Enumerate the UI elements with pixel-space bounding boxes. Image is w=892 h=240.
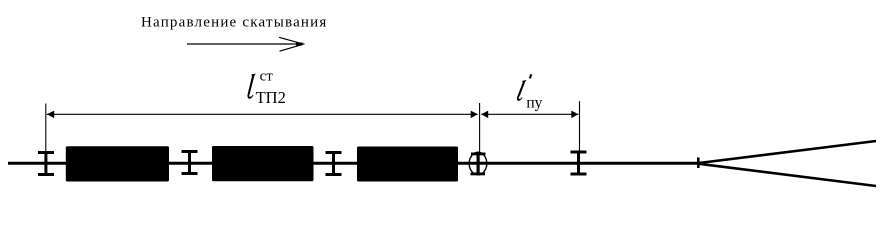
- insulated joint 2 top cap: [182, 150, 198, 153]
- direction arrow shaft: [187, 43, 305, 45]
- svg-text:пу: пу: [526, 95, 542, 112]
- svg-text:ст: ст: [260, 69, 274, 85]
- insulated joint 4 bar: [577, 151, 580, 176]
- insulated joint 3 bottom cap: [326, 173, 342, 176]
- switch upper branch: [699, 141, 876, 163]
- insulated joint 2 bottom cap: [182, 172, 198, 175]
- direction arrow open head lower stroke: [280, 44, 303, 51]
- dimension ltp2 line: [47, 113, 478, 115]
- label l TP2 st : big italic l: [247, 74, 255, 99]
- insulated joint 3 top cap: [326, 151, 342, 154]
- svg-text:ТП2: ТП2: [256, 88, 286, 107]
- insulated joint 1 bottom cap: [38, 173, 54, 176]
- insulated joint 1 bar: [44, 151, 47, 176]
- dimension lpu right arrowhead: [571, 111, 578, 119]
- main track line: [8, 162, 700, 165]
- dimension ltp2 left arrowhead: [47, 111, 54, 119]
- dimension ltp2 right arrowhead: [471, 111, 478, 119]
- label l pu : big italic l: [517, 80, 527, 101]
- direction arrow open head upper stroke: [279, 37, 303, 44]
- retarder block 2: [212, 146, 314, 181]
- label l pu : prime mark: [530, 74, 532, 78]
- switch lower branch: [699, 164, 876, 186]
- insulated joint 3 bar: [332, 151, 335, 176]
- insulated joint 1 top cap: [38, 151, 54, 154]
- circled joint bottom cap: [471, 173, 486, 176]
- dimension shared extension line at circle: [479, 103, 481, 153]
- dimension lpu right extension line: [579, 101, 581, 151]
- retarder block 3: [357, 147, 458, 182]
- circled joint ellipse: [469, 152, 487, 175]
- dimension ltp2 left extension line: [45, 104, 47, 153]
- insulated joint 4 top cap: [571, 151, 587, 154]
- insulated joint 4 bottom cap: [571, 173, 587, 176]
- dimension lpu left arrowhead: [481, 111, 488, 119]
- insulated joint 2 bar: [188, 150, 191, 175]
- dimension lpu line: [481, 113, 578, 115]
- retarder block 1: [66, 146, 169, 181]
- circled joint bar: [477, 153, 480, 176]
- direction arrow tip blob: [296, 43, 303, 46]
- switch point tick: [697, 158, 700, 169]
- svg-text:Направление скатывания: Направление скатывания: [141, 14, 328, 30]
- circled joint top cap: [471, 153, 486, 156]
